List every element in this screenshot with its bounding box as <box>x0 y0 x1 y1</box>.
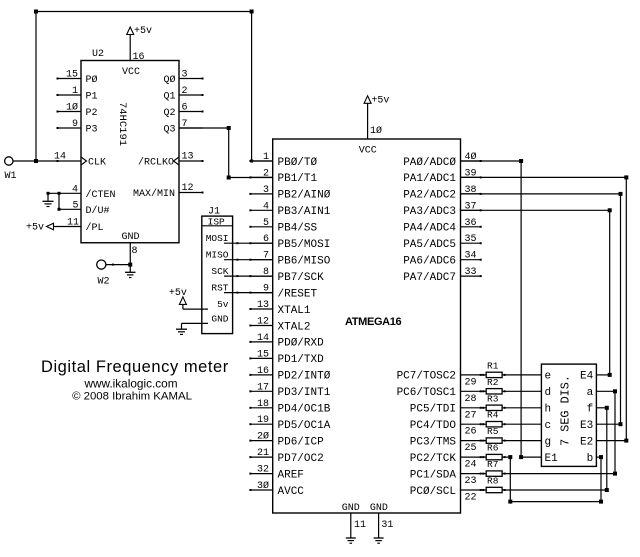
IC U1 ATMEGA16 body <box>273 139 461 513</box>
corner top-right <box>250 10 254 14</box>
svg-text:E4: E4 <box>580 371 594 383</box>
svg-text:QØ: QØ <box>163 74 175 86</box>
svg-text:R5: R5 <box>487 426 499 437</box>
corner R6 <box>508 455 512 459</box>
wire Q3 net vertical <box>228 128 230 178</box>
svg-text:R6: R6 <box>487 443 499 454</box>
svg-text:P1: P1 <box>86 92 98 103</box>
ground at U2 pin 8 <box>125 272 136 277</box>
svg-text:PD3/INT1: PD3/INT1 <box>278 387 331 399</box>
wire R2 output <box>502 390 541 392</box>
svg-text:PB5/MOSI: PB5/MOSI <box>278 239 331 251</box>
wire ATMEGA16 to R1 <box>481 374 487 376</box>
ATMEGA16 pin 16 PD2/INT0 <box>249 366 330 383</box>
svg-text:e: e <box>545 371 552 383</box>
ATMEGA16 pin 14 PD0/RXD <box>249 333 324 350</box>
ground at pin 31 <box>374 538 384 543</box>
ATMEGA16 pin 36 PA4/ADC4 <box>403 218 482 235</box>
svg-text:4: 4 <box>72 184 78 195</box>
svg-text:PC2/TCK: PC2/TCK <box>410 453 457 465</box>
svg-text:16: 16 <box>257 366 269 377</box>
U2 pin 5 D/U# <box>59 200 110 217</box>
ATMEGA16 pin 6 PB5/MOSI <box>249 234 330 251</box>
ATMEGA16 pin 4 PB3/AIN1 <box>249 201 330 218</box>
svg-text:6: 6 <box>182 103 188 114</box>
resistor R8 <box>486 476 502 493</box>
svg-text:PA6/ADC6: PA6/ADC6 <box>403 256 456 268</box>
power +5v at /PL <box>26 223 54 234</box>
ATMEGA16 pin 28 PC6/TOSC1 <box>397 387 482 405</box>
svg-text:D/U#: D/U# <box>86 205 110 217</box>
corner at PB1 row <box>227 176 231 180</box>
title Digital Frequency meter <box>41 358 229 376</box>
svg-text:R3: R3 <box>487 393 499 404</box>
corner at PB0 row <box>250 160 253 163</box>
wire W2 to U2 pin 8 <box>106 264 130 266</box>
svg-text:8: 8 <box>263 267 269 278</box>
J1 ISP title <box>202 217 233 228</box>
svg-text:PD5/OC1A: PD5/OC1A <box>278 420 331 432</box>
svg-text:R4: R4 <box>487 410 499 421</box>
resistor R6 <box>486 443 502 460</box>
svg-text:13: 13 <box>257 300 269 311</box>
svg-text:W2: W2 <box>98 277 110 288</box>
svg-text:2: 2 <box>182 86 188 97</box>
svg-text:g: g <box>545 436 552 448</box>
svg-text:PD1/TXD: PD1/TXD <box>278 354 325 366</box>
ATMEGA16 pin 21 PD7/OC2 <box>249 448 323 465</box>
corner PA0 <box>519 159 523 163</box>
svg-text:PC5/TDI: PC5/TDI <box>410 404 456 416</box>
wire E2 stub <box>596 440 626 442</box>
svg-text:a: a <box>587 387 594 399</box>
ATMEGA16 pin 5 PB4/SS <box>249 218 317 235</box>
svg-text:+5v: +5v <box>169 288 187 299</box>
ATMEGA16 pin 11 GND stem <box>351 513 366 538</box>
svg-text:28: 28 <box>465 394 477 405</box>
svg-text:PC3/TMS: PC3/TMS <box>410 436 457 448</box>
svg-text:23: 23 <box>465 476 477 487</box>
wire /CTEN to D/U# vertical <box>58 192 61 211</box>
svg-text:PA4/ADC4: PA4/ADC4 <box>403 223 456 235</box>
svg-text:GND: GND <box>342 503 360 514</box>
svg-text:GND: GND <box>370 503 388 514</box>
ATMEGA16 pin 13 XTAL1 <box>249 300 311 317</box>
J1 reference label <box>208 207 220 218</box>
svg-text:PB6/MISO: PB6/MISO <box>278 256 331 268</box>
wire into PB1/T1 pin 2 <box>229 177 273 179</box>
svg-text:5v: 5v <box>217 299 229 310</box>
wire ATMEGA16 to R6 <box>481 456 487 458</box>
ATMEGA16 pin 38 PA2/ADC2 <box>403 185 482 202</box>
wire R6 output <box>502 456 510 458</box>
J1 pin MISO + wire to ATMEGA <box>206 250 273 261</box>
wire R5 output <box>502 440 541 442</box>
svg-text:3Ø: 3Ø <box>257 480 269 492</box>
svg-text:26: 26 <box>465 427 477 438</box>
svg-text:R7: R7 <box>487 459 498 470</box>
svg-text:PB4/SS: PB4/SS <box>278 223 318 235</box>
svg-text:1Ø: 1Ø <box>370 125 382 137</box>
corner a <box>613 389 617 393</box>
svg-text:2Ø: 2Ø <box>257 431 269 443</box>
svg-text:E2: E2 <box>580 436 593 448</box>
U2 pin 14 CLK label + clock chevron <box>54 152 106 169</box>
wire f to R8 vertical <box>606 408 608 490</box>
svg-text:R1: R1 <box>487 360 499 371</box>
J1 pin 5v <box>183 299 229 310</box>
svg-text:PB3/AIN1: PB3/AIN1 <box>278 206 331 218</box>
resistor R7 <box>486 459 502 476</box>
svg-text:3: 3 <box>182 70 188 81</box>
svg-text:PD7/OC2: PD7/OC2 <box>278 453 324 465</box>
svg-text:SCK: SCK <box>211 266 228 277</box>
ATMEGA16 pin 37 PA3/ADC3 <box>403 201 482 218</box>
svg-text:U2: U2 <box>92 49 104 60</box>
U2 pin 8 GND stem <box>130 243 137 265</box>
svg-text:32: 32 <box>257 465 269 476</box>
ATMEGA16 pin 17 PD3/INT1 <box>249 382 330 399</box>
display pin c <box>545 420 552 432</box>
svg-text:/RCLKO: /RCLKO <box>138 157 174 169</box>
wire PA1 to E2 vertical <box>625 177 627 440</box>
svg-text:RST: RST <box>211 283 228 294</box>
svg-text:4: 4 <box>263 201 269 212</box>
wire ATMEGA16 to R2 <box>481 390 487 392</box>
svg-text:MOSI: MOSI <box>206 233 229 244</box>
ATMEGA16 pin 34 PA6/ADC6 <box>403 251 482 268</box>
power +5v at U2 pin 16 <box>127 26 152 37</box>
resistor R1 <box>486 360 502 377</box>
svg-text:PA7/ADC7: PA7/ADC7 <box>403 272 456 284</box>
svg-text:1: 1 <box>263 152 269 163</box>
U2 pin 4 /CTEN <box>48 184 116 201</box>
copyright line <box>72 391 192 403</box>
svg-text:21: 21 <box>257 448 269 459</box>
wire ATMEGA16 to R8 <box>481 489 487 491</box>
ATMEGA16 pin 29 PC7/TOSC2 <box>397 371 482 389</box>
ATMEGA16 pin 15 PD1/TXD <box>249 349 324 366</box>
svg-text:PA2/ADC2: PA2/ADC2 <box>403 190 456 202</box>
wire R3 output <box>502 407 541 409</box>
W1 label <box>5 171 17 182</box>
svg-text:PC1/SDA: PC1/SDA <box>410 469 457 481</box>
svg-text:29: 29 <box>465 377 477 388</box>
svg-text:Digital Frequency meter: Digital Frequency meter <box>41 358 229 376</box>
corner f <box>605 406 609 410</box>
wire vertical left riser <box>35 12 37 162</box>
corner PA3 <box>608 208 612 212</box>
svg-text:PD6/ICP: PD6/ICP <box>278 436 325 448</box>
resistor R3 <box>486 393 502 410</box>
resistor R5 <box>486 426 502 443</box>
svg-text:AVCC: AVCC <box>278 486 305 498</box>
svg-text:14: 14 <box>257 333 269 344</box>
svg-text:6: 6 <box>263 234 269 245</box>
ATMEGA16 pin 33 PA7/ADC7 <box>403 267 482 284</box>
display pin E4 <box>580 371 594 383</box>
display pin h <box>545 404 552 416</box>
display pin E3 <box>580 420 593 432</box>
svg-text:c: c <box>545 420 552 432</box>
svg-text:25: 25 <box>465 443 477 454</box>
corner PA1 <box>624 175 628 179</box>
display pin b <box>587 453 594 465</box>
corner bottom-right of b net <box>599 500 603 504</box>
wire /CTEN to ground <box>47 192 50 201</box>
ATMEGA16 pin 35 PA5/ADC5 <box>403 234 482 251</box>
svg-text:MAX/MIN: MAX/MIN <box>133 188 175 200</box>
display pin f <box>587 404 594 416</box>
svg-text:PD4/OC1B: PD4/OC1B <box>278 404 331 416</box>
wire E3 stub <box>596 423 620 425</box>
subtitle www.ikalogic.com <box>83 377 177 391</box>
svg-text:XTAL1: XTAL1 <box>278 305 311 317</box>
svg-text:19: 19 <box>257 415 269 426</box>
wire top horizontal <box>36 11 252 13</box>
svg-text:d: d <box>545 387 552 399</box>
svg-text:33: 33 <box>465 267 477 278</box>
svg-text:7 SEG DIS.: 7 SEG DIS. <box>558 375 572 446</box>
display pin E2 <box>580 436 593 448</box>
svg-text:AREF: AREF <box>278 469 304 481</box>
svg-text:PC7/TOSC2: PC7/TOSC2 <box>397 371 456 383</box>
J1 pin GND <box>182 314 229 325</box>
junction at W1/CLK wire <box>34 159 38 163</box>
corner bottom-left of b net <box>508 500 512 504</box>
resistor R2 <box>486 377 502 394</box>
svg-text:P3: P3 <box>86 125 98 136</box>
ground at /CTEN <box>43 201 54 206</box>
svg-text:h: h <box>545 404 552 416</box>
wire Q3 east <box>179 127 229 129</box>
wire ATMEGA16 to R3 <box>481 407 487 409</box>
svg-text:18: 18 <box>257 399 269 410</box>
svg-text:PA5/ADC5: PA5/ADC5 <box>403 239 456 251</box>
connector W2 <box>97 260 106 269</box>
ATMEGA16 pin 18 PD4/OC1B <box>249 399 330 416</box>
ATMEGA16 pin 3 PB2/AIN0 <box>249 185 330 202</box>
svg-text:22: 22 <box>465 493 477 504</box>
J1 pin RST + wire to ATMEGA <box>211 283 272 294</box>
ATMEGA16 GND pin labels <box>342 503 388 514</box>
U2 pin 16 VCC stem <box>130 35 144 64</box>
svg-text:Q2: Q2 <box>163 108 175 119</box>
wire R7 output <box>502 473 615 475</box>
ATMEGA16 pin 9 /RESET <box>249 284 317 301</box>
svg-text:/CTEN: /CTEN <box>86 189 116 201</box>
ATMEGA16 pin 23 PC1/SDA <box>410 469 482 487</box>
power +5v at ATMEGA16 VCC <box>364 96 389 107</box>
wire a stub <box>596 390 615 392</box>
corner E2 <box>624 439 628 443</box>
svg-text:E3: E3 <box>580 420 593 432</box>
svg-text:+5v: +5v <box>134 26 152 37</box>
display pin e <box>545 371 552 383</box>
svg-text:8: 8 <box>132 246 138 257</box>
svg-text:/PL: /PL <box>86 222 104 234</box>
U2 pin 10 P2 <box>57 102 98 120</box>
svg-text:+5v: +5v <box>371 96 389 107</box>
svg-text:2: 2 <box>263 168 269 179</box>
svg-text:5: 5 <box>263 218 269 229</box>
ATMEGA16 pin 10 VCC stem <box>368 103 382 139</box>
svg-text:PA3/ADC3: PA3/ADC3 <box>403 206 456 218</box>
display DIS1 7-SEG body <box>541 364 596 466</box>
wire ATMEGA16 to R4 <box>481 423 487 425</box>
svg-text:PD2/INTØ: PD2/INTØ <box>278 371 331 383</box>
svg-text:ATMEGA16: ATMEGA16 <box>345 316 402 328</box>
svg-text:11: 11 <box>67 218 79 229</box>
ATMEGA16 pin 25 PC3/TMS <box>410 436 482 454</box>
ground at J1 <box>176 323 187 334</box>
ATMEGA16 pin 1 PB0/T0 <box>249 152 317 169</box>
wire R6 down vertical <box>509 457 511 502</box>
svg-text:34: 34 <box>465 251 477 262</box>
U2 part name 74HC191 (vertical) <box>116 102 128 146</box>
J1 pin SCK + wire to ATMEGA <box>211 266 272 277</box>
wire R1 output <box>502 374 541 376</box>
svg-text:1Ø: 1Ø <box>66 102 78 114</box>
U2 pin 3 Q0 <box>163 70 203 87</box>
U2 pin 13 /RCLKO <box>138 152 204 169</box>
ATMEGA16 part name <box>345 316 402 328</box>
svg-text:3: 3 <box>263 185 269 196</box>
ATMEGA16 VCC pin label <box>359 146 377 157</box>
svg-text:11: 11 <box>354 520 366 531</box>
wire into PB0/T0 pin 1 <box>252 160 273 162</box>
corner R7/a <box>613 472 617 476</box>
svg-text:12: 12 <box>182 183 194 194</box>
ATMEGA16 pin 26 PC4/TDO <box>410 420 482 438</box>
ATMEGA16 pin 12 XTAL2 <box>249 317 310 334</box>
svg-text:CLK: CLK <box>88 158 106 169</box>
display name 7 SEG DIS. (vertical) <box>558 375 572 446</box>
ground stem at U2 pin 8 <box>129 265 131 272</box>
display pin E1 + stub <box>521 453 558 465</box>
svg-text:7: 7 <box>263 251 269 262</box>
U2 pin 15 P0 <box>57 70 98 87</box>
corner E3 <box>619 422 623 426</box>
svg-text:VCC: VCC <box>359 146 377 157</box>
ATMEGA16 pin 19 PD5/OC1A <box>249 415 330 432</box>
ground at pin 11 <box>346 538 356 543</box>
svg-text:b: b <box>587 453 594 465</box>
svg-text:15: 15 <box>257 349 269 360</box>
wire E4 stub <box>596 374 609 376</box>
U2 pin 11 /PL <box>54 218 104 235</box>
svg-text:E1: E1 <box>545 453 559 465</box>
svg-text:5: 5 <box>72 200 78 211</box>
connector W1 <box>5 157 13 165</box>
svg-text:15: 15 <box>66 70 78 81</box>
wire PA0 east <box>461 160 522 162</box>
svg-text:PA1/ADC1: PA1/ADC1 <box>403 173 456 185</box>
ATMEGA16 pin 32 AREF <box>249 465 304 482</box>
svg-text:PCØ/SCL: PCØ/SCL <box>410 486 456 498</box>
J1 pin MOSI + wire to ATMEGA <box>206 233 273 244</box>
wire PA2 east <box>461 193 621 195</box>
svg-text:GND: GND <box>211 314 228 325</box>
svg-text:R8: R8 <box>487 476 499 487</box>
U2 pin 9 P3 <box>57 119 98 136</box>
display pin a <box>587 387 594 399</box>
svg-text:74HC191: 74HC191 <box>116 102 128 146</box>
wire PA2 to E3 vertical <box>620 194 622 424</box>
svg-text:© 2008 Ibrahim KAMAL: © 2008 Ibrahim KAMAL <box>72 391 192 403</box>
ATMEGA16 pin 22 PC0/SCL <box>410 486 482 504</box>
svg-text:+5v: +5v <box>26 223 44 234</box>
U2 reference label <box>92 49 104 60</box>
svg-text:Q1: Q1 <box>163 92 175 103</box>
power +5v at J1 <box>169 288 187 309</box>
svg-text:PØ: PØ <box>86 74 98 86</box>
U2 VCC pin label <box>122 67 140 78</box>
svg-text:GND: GND <box>121 232 139 243</box>
svg-text:PDØ/RXD: PDØ/RXD <box>278 338 325 350</box>
corner PA2 <box>619 192 623 196</box>
wire f stub <box>596 407 606 409</box>
wire PA1 east <box>461 176 627 178</box>
ATMEGA16 pin 39 PA1/ADC1 <box>403 168 482 185</box>
svg-text:31: 31 <box>381 520 393 531</box>
wire bottom horizontal b net <box>510 501 601 503</box>
U2 pin 1 P1 <box>57 86 98 103</box>
svg-text:PBØ/TØ: PBØ/TØ <box>278 157 318 169</box>
junction W2/pin8/ground <box>128 263 132 267</box>
ATMEGA16 pin 2 PB1/T1 <box>249 168 317 185</box>
corner R8/f <box>605 488 609 492</box>
svg-text:PC6/TOSC1: PC6/TOSC1 <box>397 387 457 399</box>
svg-text:16: 16 <box>133 52 145 63</box>
wire R4 output <box>502 423 541 425</box>
ATMEGA16 pin 30 AVCC <box>249 480 304 498</box>
svg-text:Q3: Q3 <box>163 125 175 136</box>
wire W1 to U2 CLK <box>13 160 81 162</box>
ATMEGA16 pin 27 PC5/TDI <box>410 404 482 422</box>
wire PA0 to E1 vertical <box>520 161 522 457</box>
wire down to PB0 <box>251 12 253 162</box>
wire ATMEGA16 to R7 <box>481 473 487 475</box>
connector J1 body <box>202 216 233 334</box>
wire R8 output <box>502 489 607 491</box>
ATMEGA16 pin 40 PA0/ADC0 <box>403 151 482 169</box>
wire a to R7 vertical <box>614 391 616 473</box>
ATMEGA16 pin 20 PD6/ICP <box>249 431 324 449</box>
svg-text:W1: W1 <box>5 171 17 182</box>
svg-text:R2: R2 <box>487 377 499 388</box>
U2 pin 7 Q3 <box>163 119 202 136</box>
W2 label <box>98 277 110 288</box>
svg-text:17: 17 <box>257 382 269 393</box>
svg-text:PB7/SCK: PB7/SCK <box>278 272 325 284</box>
corner Q3 net <box>227 126 231 130</box>
svg-text:1: 1 <box>72 86 78 97</box>
svg-text:27: 27 <box>465 410 477 421</box>
display pin d <box>545 387 552 399</box>
ATMEGA16 pin 8 PB7/SCK <box>249 267 324 284</box>
svg-text:PB2/AINØ: PB2/AINØ <box>278 190 331 202</box>
ATMEGA16 pin 7 PB6/MISO <box>249 251 330 268</box>
wire ATMEGA16 to R5 <box>481 440 487 442</box>
svg-text:PAØ/ADCØ: PAØ/ADCØ <box>403 157 456 169</box>
svg-text:13: 13 <box>182 152 194 163</box>
corner b <box>599 455 603 459</box>
resistor R4 <box>486 410 502 427</box>
corner E4 <box>608 373 612 377</box>
U2 GND pin label <box>121 232 139 243</box>
svg-text:www.ikalogic.com: www.ikalogic.com <box>83 377 177 391</box>
